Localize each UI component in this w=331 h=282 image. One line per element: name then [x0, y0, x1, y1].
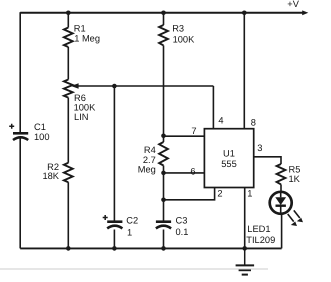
node junction C3 column / pin 2 wire — [161, 198, 166, 203]
wire R6 to R2 — [67, 98, 69, 163]
wire R1 top lead — [67, 13, 69, 28]
wire R2 to bottom rail — [67, 182, 69, 248]
+V arrowhead — [302, 10, 308, 15]
wire R3 top lead — [163, 13, 165, 25]
node junction wiper wire / C2 column — [112, 84, 117, 89]
svg-text:1 Meg: 1 Meg — [74, 34, 100, 44]
op-amp U1 555 IC box — [204, 129, 253, 188]
node junction top rail / pin 8 — [242, 11, 247, 16]
svg-text:2.7: 2.7 — [143, 155, 156, 165]
wiper arrow of R6 — [71, 83, 79, 88]
resistor R1 — [64, 28, 73, 48]
svg-text:R5: R5 — [289, 165, 301, 175]
LED1 triangle — [275, 197, 286, 205]
wire pin 6 — [164, 172, 205, 174]
wire R3 to node 7 — [163, 45, 165, 135]
wire pin 3 — [254, 157, 281, 164]
svg-text:0.1: 0.1 — [176, 227, 189, 237]
svg-text:18K: 18K — [42, 171, 59, 181]
svg-text:555: 555 — [221, 159, 237, 169]
node junction top rail / R3 — [161, 11, 166, 16]
svg-text:4: 4 — [218, 116, 223, 126]
resistor R6 (pot element) — [64, 80, 73, 98]
svg-text:1: 1 — [127, 228, 132, 238]
svg-text:7: 7 — [191, 126, 196, 136]
svg-text:100: 100 — [34, 132, 50, 142]
svg-text:2: 2 — [217, 189, 222, 199]
LED1 cathode bar — [276, 204, 286, 206]
wire pin 8 — [243, 13, 245, 129]
svg-text:C1: C1 — [34, 122, 46, 132]
svg-text:R6: R6 — [74, 93, 86, 103]
svg-text:R1: R1 — [74, 24, 86, 34]
svg-text:LED1: LED1 — [247, 224, 270, 234]
wire R6 wiper to pin 4 corner — [78, 85, 214, 87]
wire pin 1 to ground — [244, 188, 246, 249]
wire bottom rail — [20, 247, 281, 249]
LED light arrow 2 — [288, 214, 294, 222]
wire pin 2 — [164, 188, 215, 200]
ground — [236, 248, 255, 274]
wire C3 to bottom rail — [163, 230, 165, 249]
wire node7 to R4 — [163, 136, 165, 142]
node junction top rail / R1 — [66, 11, 71, 16]
wire left vertical (top rail to C1) — [19, 12, 21, 132]
svg-text:6: 6 — [190, 166, 195, 176]
svg-text:1: 1 — [247, 189, 252, 199]
wire R5 to LED — [280, 184, 282, 191]
label C1 plus — [9, 124, 14, 129]
wire C2 to bottom rail — [113, 230, 115, 249]
capacitor C1 — [13, 133, 28, 140]
wire C2 column upper — [113, 86, 115, 221]
wire R4 to node 6 — [163, 166, 165, 173]
label C2 plus — [103, 215, 108, 220]
capacitor C2 — [107, 222, 122, 229]
wire LED to bottom rail — [281, 214, 283, 249]
wire R1 to R6 — [67, 47, 69, 80]
svg-text:100K: 100K — [173, 34, 196, 44]
svg-text:1K: 1K — [289, 174, 301, 184]
node junction bottom rail / R2 — [66, 246, 71, 251]
svg-text:+V: +V — [287, 0, 299, 9]
wire pin 4 vertical — [212, 86, 214, 129]
node junction bottom rail / C2 — [112, 246, 117, 251]
wire left vertical (C1 to bottom rail) — [19, 138, 21, 249]
LED1 cathode wire — [280, 206, 282, 214]
svg-text:8: 8 — [251, 117, 256, 127]
resistor R2 — [64, 163, 73, 182]
svg-text:C3: C3 — [176, 215, 188, 225]
svg-text:Meg: Meg — [138, 165, 156, 175]
faint scan artifact line — [0, 268, 268, 270]
svg-text:C2: C2 — [126, 215, 138, 225]
svg-text:TIL209: TIL209 — [246, 235, 275, 245]
LED1 circle — [270, 192, 292, 214]
resistor R3 — [159, 25, 168, 45]
wire pin 7 — [164, 135, 205, 137]
node junction bottom rail / ground — [242, 246, 247, 251]
svg-text:100K: 100K — [74, 103, 97, 113]
wire top +V rail — [20, 12, 302, 14]
node junction bottom rail / C3 — [161, 246, 166, 251]
svg-text:R3: R3 — [172, 24, 184, 34]
node junction R4 / pin 6 — [161, 171, 166, 176]
resistor R4 — [159, 142, 168, 166]
svg-text:R4: R4 — [144, 145, 156, 155]
svg-text:LIN: LIN — [74, 112, 88, 122]
svg-text:U1: U1 — [223, 148, 235, 158]
LED1 anode wire inside — [280, 192, 282, 198]
svg-text:3: 3 — [257, 143, 262, 153]
wire node6 to node2 — [163, 173, 165, 200]
LED light arrow 1 — [294, 210, 300, 218]
capacitor C3 — [156, 222, 171, 229]
resistor R5 — [277, 164, 286, 184]
wire node2 to C3 — [163, 200, 165, 221]
node junction R3 / pin 7 — [161, 134, 166, 139]
